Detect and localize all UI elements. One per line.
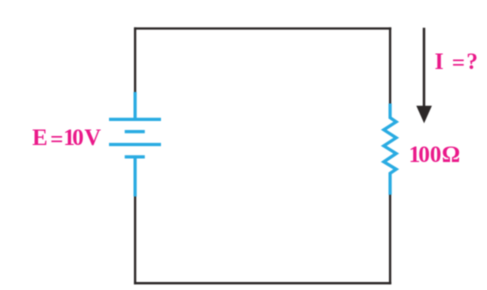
resistor R 100 ohm: leads and zigzag body	[384, 104, 396, 195]
svg-text:I=?: I=?	[435, 49, 478, 75]
wire: bottom horizontal segment	[134, 282, 391, 284]
svg-text:E=10V: E=10V	[32, 125, 101, 152]
wire: top-left vertical segment	[134, 27, 136, 93]
current arrow I: shaft	[423, 28, 426, 108]
battery E: long plate 2	[109, 143, 161, 146]
current arrow I: head	[416, 106, 432, 124]
wire: bottom-right vertical segment	[389, 195, 391, 285]
battery E: top lead	[134, 92, 137, 119]
battery E: long plate 1	[109, 118, 161, 121]
svg-text:100Ω: 100Ω	[409, 142, 460, 167]
wire: top horizontal segment	[134, 27, 391, 29]
wire: top-right vertical segment	[389, 27, 391, 104]
battery E: short plate 1	[125, 130, 145, 133]
battery E: short plate 2	[125, 155, 145, 158]
battery E: bottom lead	[134, 157, 137, 197]
wire: bottom-left vertical segment	[134, 196, 136, 285]
